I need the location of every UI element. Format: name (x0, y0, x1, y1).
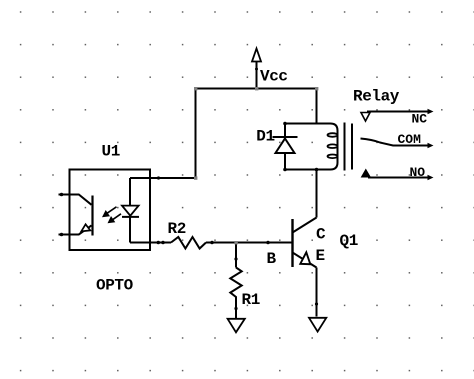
svg-text:NO: NO (410, 165, 426, 180)
svg-text:OPTO: OPTO (96, 277, 134, 295)
svg-text:COM: COM (398, 132, 422, 147)
svg-text:NC: NC (412, 112, 428, 127)
svg-text:U1: U1 (102, 143, 120, 161)
svg-text:B: B (267, 250, 277, 268)
svg-text:C: C (316, 226, 326, 244)
svg-text:R1: R1 (242, 291, 260, 309)
svg-text:E: E (316, 247, 325, 265)
svg-text:Q1: Q1 (340, 232, 358, 250)
svg-text:R2: R2 (168, 220, 186, 238)
svg-text:D1: D1 (256, 128, 274, 146)
svg-text:Relay: Relay (353, 88, 400, 106)
svg-text:Vcc: Vcc (260, 68, 288, 86)
